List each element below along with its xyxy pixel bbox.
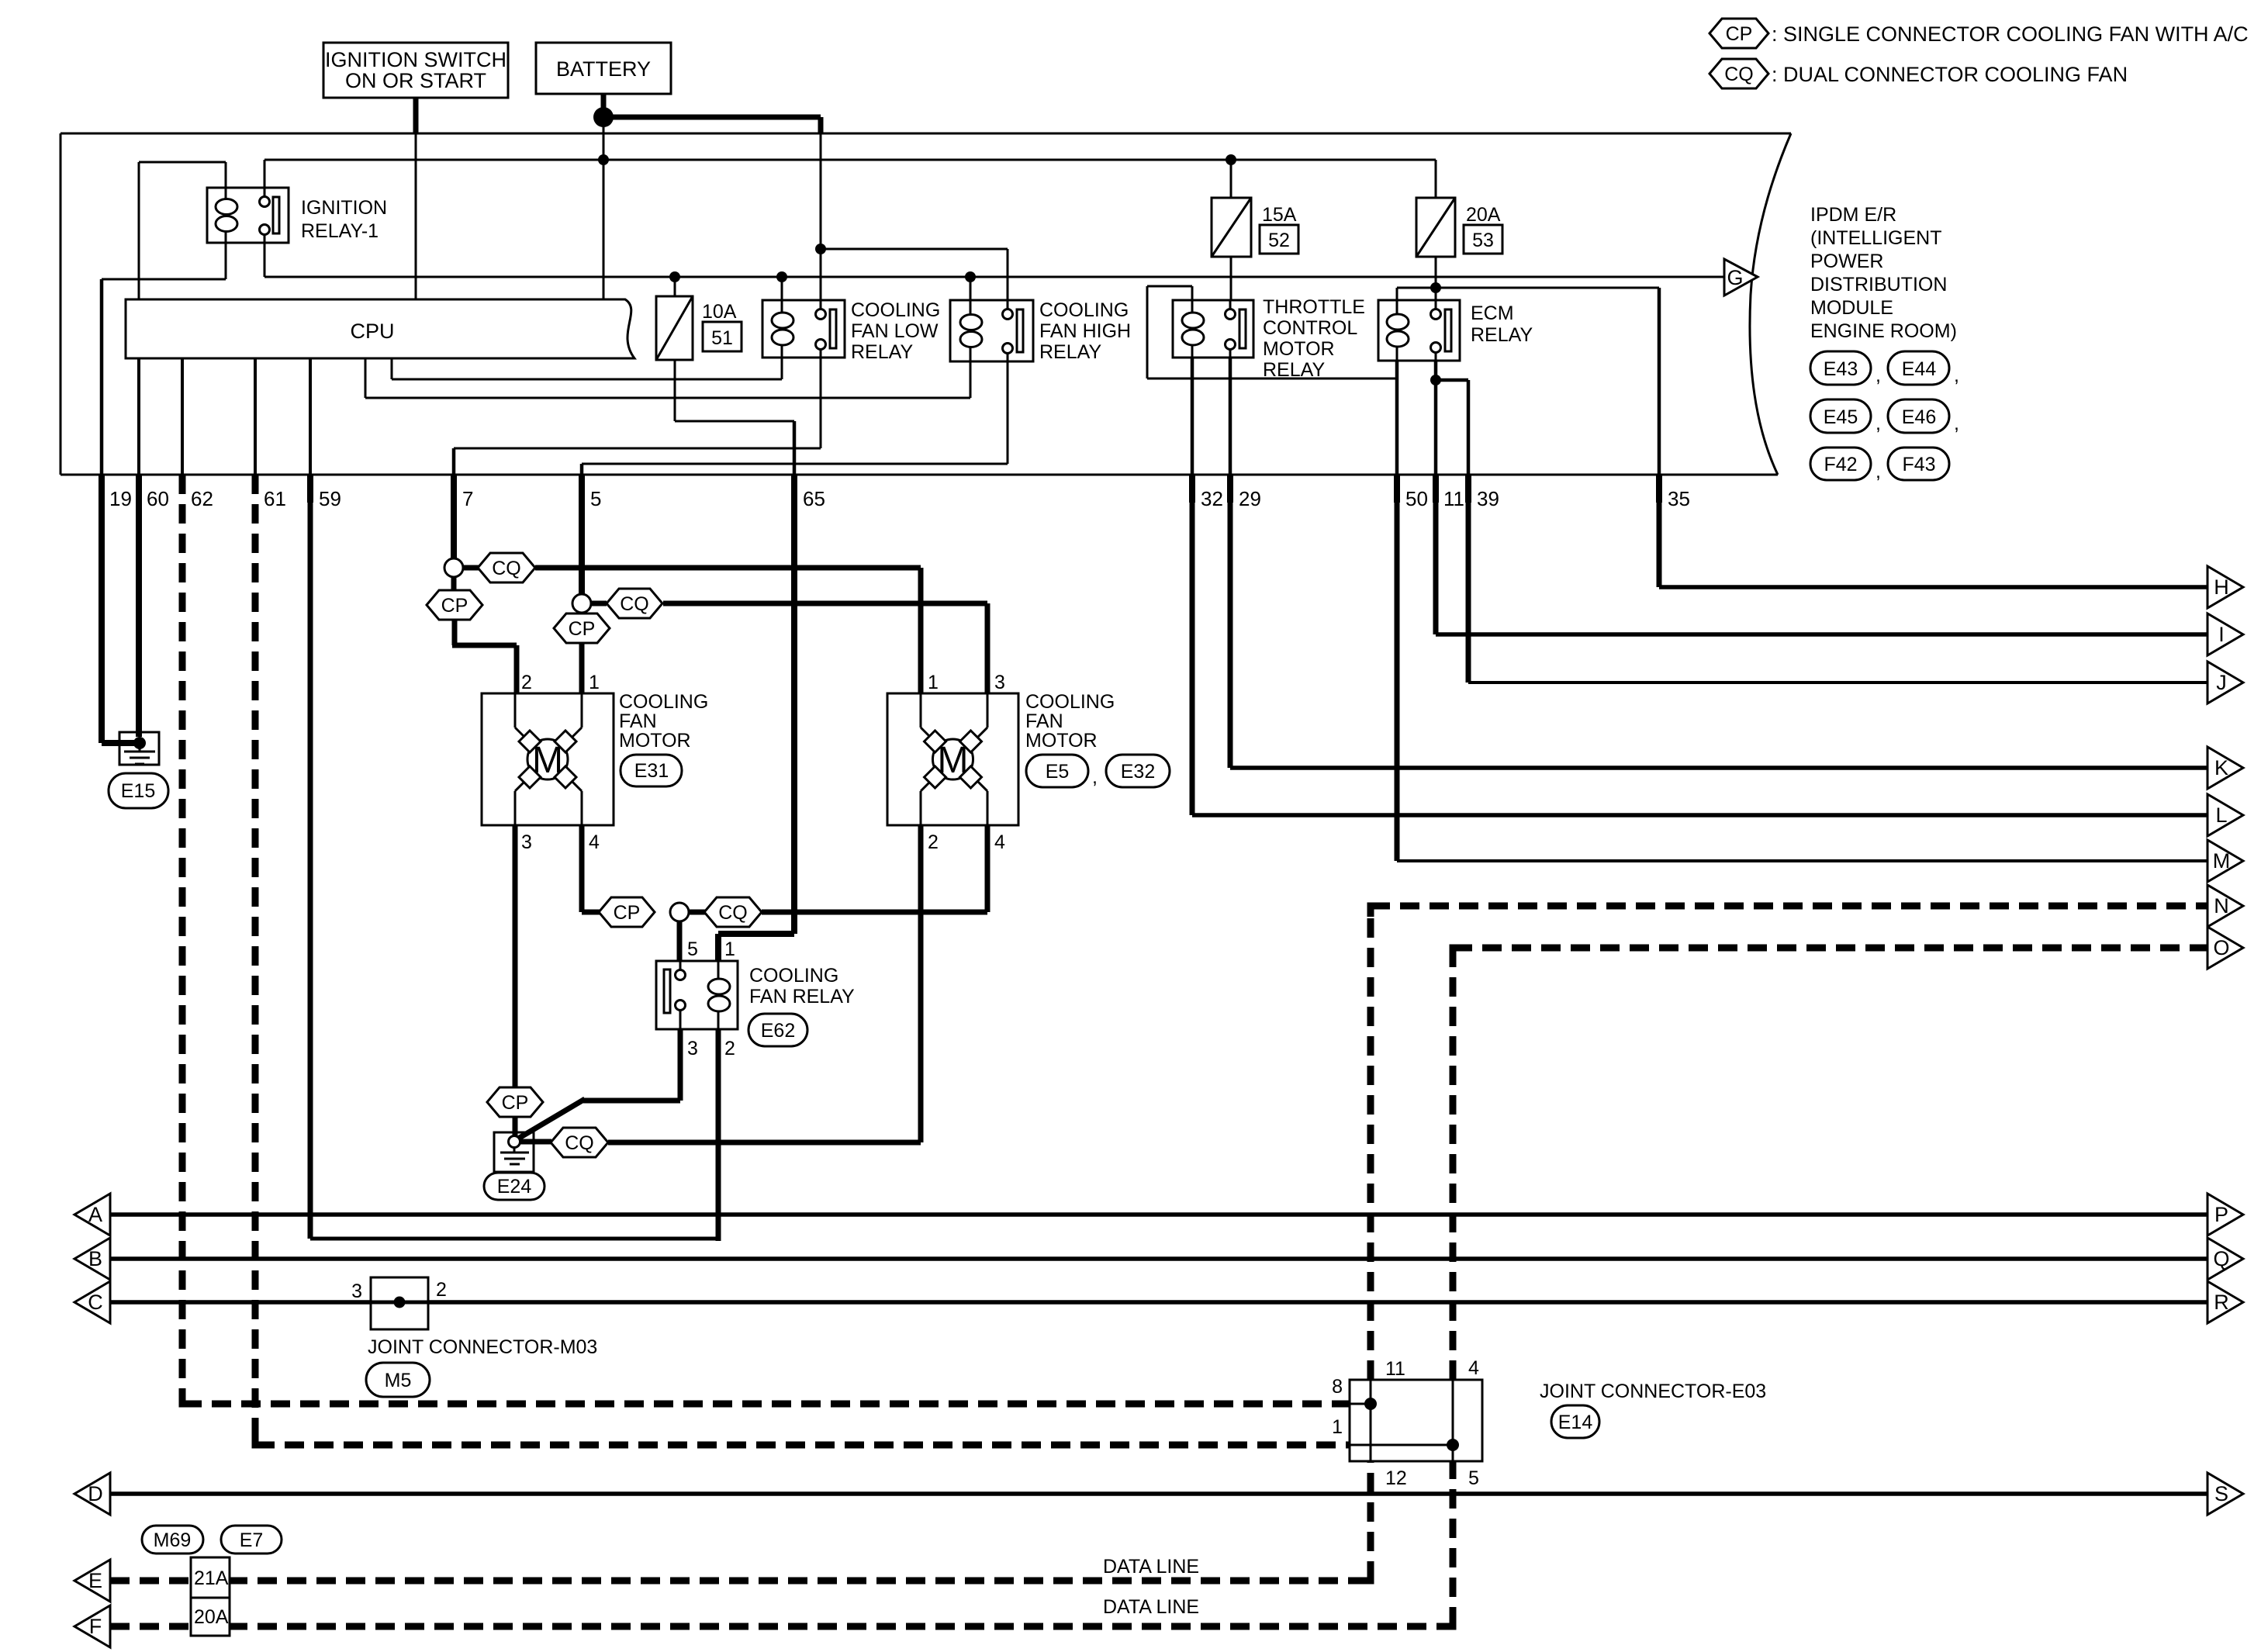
svg-text:DATA LINE: DATA LINE — [1103, 1556, 1199, 1578]
fuse 51 labels — [702, 301, 742, 351]
CP tag 3 — [599, 897, 655, 927]
IPDM connector F43 — [1888, 448, 1949, 480]
IPDM pin 32 — [1192, 475, 1223, 510]
cooling fan high relay label — [1039, 299, 1131, 363]
svg-text:E43: E43 — [1824, 358, 1858, 380]
svg-text:CP: CP — [614, 902, 641, 924]
arrow H — [2207, 566, 2243, 608]
svg-text:IGNITION SWITCH: IGNITION SWITCH — [325, 48, 506, 71]
junction bus fuse51 — [669, 271, 680, 282]
ignition relay-1 label — [301, 197, 387, 242]
connector E24 — [484, 1173, 545, 1200]
svg-text:65: 65 — [803, 487, 825, 510]
svg-text:RELAY-1: RELAY-1 — [301, 220, 379, 242]
svg-text:ON OR START: ON OR START — [345, 69, 486, 92]
wire ECM relay coil to pin 50 — [1395, 361, 1399, 475]
svg-text:D: D — [88, 1482, 103, 1505]
E62 relay pin labels — [687, 938, 735, 1059]
wire ECM relay switch to pins 11 and 39 — [1436, 361, 1468, 475]
wire E data line dashed — [110, 1578, 1371, 1585]
fuse 20A 53 — [1416, 198, 1455, 257]
svg-text:E31: E31 — [634, 760, 669, 782]
wire CPU pin 59 — [309, 358, 312, 475]
wire bus206 corner to fuse 53 — [1435, 160, 1437, 198]
svg-text:CP: CP — [441, 595, 468, 617]
arrow M — [2207, 840, 2243, 882]
connector E7 — [221, 1526, 282, 1554]
fuse 10A 51 — [656, 296, 693, 360]
svg-text:MOTOR: MOTOR — [619, 730, 691, 752]
data line label 1 — [1103, 1556, 1199, 1578]
motor E5 name label — [1025, 691, 1115, 752]
svg-text:C: C — [88, 1291, 103, 1314]
svg-text:K: K — [2214, 756, 2228, 779]
wire ignition relay coil to ground bus — [102, 243, 226, 475]
arrow G — [1724, 259, 1758, 295]
svg-text:60: 60 — [147, 487, 169, 510]
CP tag 4 — [487, 1087, 543, 1117]
wire bus to high relay coil — [970, 277, 972, 300]
svg-text:MOTOR: MOTOR — [1025, 730, 1098, 752]
svg-text:CPU: CPU — [350, 320, 394, 343]
svg-text:MODULE: MODULE — [1810, 297, 1893, 319]
IPDM pin 29 — [1230, 475, 1261, 510]
svg-text:4: 4 — [589, 831, 600, 853]
svg-text:E44: E44 — [1902, 358, 1937, 380]
wire pin 59 to relay coil node — [310, 503, 718, 1239]
joint connector M03 — [371, 1277, 428, 1329]
CQ tag 1 — [463, 553, 535, 582]
legend CQ text — [1772, 63, 2128, 86]
svg-text:A: A — [88, 1203, 102, 1226]
ground E24 — [494, 1132, 534, 1172]
svg-text:,: , — [1876, 461, 1881, 482]
svg-text:1: 1 — [589, 672, 600, 693]
svg-text:IGNITION: IGNITION — [301, 197, 387, 219]
wire corner pin61 — [255, 1434, 268, 1445]
wire B to Q — [110, 1256, 2207, 1261]
svg-text:RELAY: RELAY — [851, 341, 913, 363]
wire pin 35 to arrow H — [1659, 496, 2207, 587]
svg-text:JOINT CONNECTOR-E03: JOINT CONNECTOR-E03 — [1540, 1381, 1766, 1402]
svg-text:CQ: CQ — [565, 1132, 594, 1154]
CPU box — [126, 299, 634, 358]
svg-text:2: 2 — [436, 1279, 447, 1301]
wire corner arrow O — [1453, 948, 1464, 959]
svg-text:62: 62 — [191, 487, 213, 510]
wire C to R — [110, 1300, 2207, 1305]
legend CP connector symbol — [1710, 19, 1768, 48]
wire CPU to low relay coil — [392, 358, 782, 379]
wire pin 29 to arrow K — [1230, 496, 2207, 768]
svg-text:COOLING: COOLING — [619, 691, 708, 713]
motor E5 pin labels — [928, 672, 1005, 853]
svg-text:20A: 20A — [194, 1606, 229, 1628]
motor E31 name label — [619, 691, 708, 752]
svg-text:5: 5 — [1468, 1467, 1479, 1489]
svg-text:3: 3 — [994, 672, 1005, 693]
wire pin 65 to E62 relay pin 1 — [718, 503, 794, 961]
connector M5 — [366, 1363, 430, 1397]
svg-text:S: S — [2214, 1482, 2228, 1505]
IPDM pin 7 — [454, 475, 473, 510]
connector E14 — [1551, 1405, 1599, 1438]
svg-text:CQ: CQ — [492, 558, 521, 579]
svg-text:FAN: FAN — [619, 710, 657, 732]
svg-text:11: 11 — [1443, 487, 1464, 510]
wire CPU to ignition relay coil — [139, 162, 226, 299]
svg-text:FAN RELAY: FAN RELAY — [749, 986, 855, 1007]
wire pin 19 to E15 ground — [102, 496, 138, 743]
wire corner data E — [1360, 1570, 1371, 1581]
svg-text:1: 1 — [724, 938, 735, 960]
CQ tag 4 — [520, 1128, 608, 1157]
arrow R — [2207, 1281, 2243, 1323]
svg-text:H: H — [2214, 575, 2229, 599]
throttle control motor relay — [1173, 300, 1253, 358]
wire pin 5 down — [579, 503, 585, 595]
svg-text:1: 1 — [1332, 1416, 1343, 1438]
arrow N — [2207, 885, 2243, 927]
svg-text:Q: Q — [2213, 1247, 2229, 1270]
connector E15 — [109, 773, 168, 808]
cooling fan low relay — [762, 300, 845, 358]
wire CPU pin 62 — [181, 358, 184, 475]
svg-text:12: 12 — [1385, 1467, 1407, 1489]
wire data line to arrow O — [1453, 945, 2207, 952]
junction ECM switch output — [1430, 375, 1441, 385]
wire data riser to O — [1450, 948, 1457, 1626]
connector E32 — [1106, 755, 1170, 787]
wire low relay switch to pin 7 — [454, 358, 821, 475]
svg-text:3: 3 — [351, 1280, 362, 1302]
data line label 2 — [1103, 1596, 1199, 1618]
svg-text:FAN: FAN — [1025, 710, 1063, 732]
ground E15 — [119, 732, 159, 765]
CQ tag 2 — [591, 589, 662, 618]
wire pin 60 to E15 ground — [136, 496, 142, 737]
svg-text:B: B — [88, 1247, 102, 1270]
junction bus206 fuse52 — [1226, 154, 1236, 165]
arrow S — [2207, 1473, 2243, 1515]
connector M69 — [142, 1526, 203, 1554]
fuse 15A 52 — [1212, 198, 1251, 257]
junction bus low coil — [776, 271, 787, 282]
svg-text:51: 51 — [711, 327, 733, 349]
ignition switch box — [323, 43, 508, 98]
junction connector joint 1 — [444, 558, 463, 577]
IPDM E/R name label — [1810, 204, 1957, 342]
junction connector joint 3 — [670, 903, 689, 921]
svg-text:,: , — [1092, 766, 1098, 788]
arrow Q — [2207, 1238, 2243, 1280]
arrow D — [74, 1473, 110, 1515]
svg-text:COOLING: COOLING — [1025, 691, 1115, 713]
svg-text:,: , — [1954, 413, 1959, 434]
svg-text:E: E — [88, 1569, 102, 1592]
svg-text:FAN LOW: FAN LOW — [851, 320, 939, 342]
svg-text:N: N — [2214, 894, 2229, 918]
svg-text:5: 5 — [687, 938, 698, 960]
svg-text:E7: E7 — [240, 1529, 264, 1551]
svg-text:G: G — [1727, 266, 1743, 289]
svg-text:DISTRIBUTION: DISTRIBUTION — [1810, 274, 1947, 295]
wire corner pin62 — [182, 1393, 195, 1404]
fuse 20A box — [191, 1598, 230, 1636]
svg-text:CQ: CQ — [718, 902, 748, 924]
svg-text:4: 4 — [1468, 1357, 1479, 1379]
svg-text:CP: CP — [502, 1092, 529, 1114]
wire throttle relay coil bracket — [1147, 286, 1397, 378]
wire bus to fuse 51 — [674, 277, 676, 296]
svg-text:M69: M69 — [154, 1529, 192, 1551]
IPDM pin 60 — [139, 475, 169, 510]
svg-text:I: I — [2218, 623, 2225, 646]
svg-text:COOLING: COOLING — [851, 299, 940, 321]
svg-text:COOLING: COOLING — [1039, 299, 1129, 321]
wire pin 62 dashed to E14 pin 8 — [182, 475, 1350, 1404]
IPDM E/R enclosure box — [61, 133, 1791, 475]
wire corner arrow N — [1371, 906, 1381, 917]
svg-text:5: 5 — [590, 487, 601, 510]
legend CP text — [1772, 22, 2249, 46]
svg-text:L: L — [2215, 804, 2227, 827]
wire 20A node to ECM relay — [1397, 288, 1659, 475]
IPDM pin 19 — [102, 475, 132, 510]
svg-text:BATTERY: BATTERY — [556, 57, 651, 81]
svg-text:: SINGLE CONNECTOR COOLING FAN: : SINGLE CONNECTOR COOLING FAN WITH A/C — [1772, 22, 2249, 46]
IPDM pin 65 — [794, 475, 825, 510]
svg-text:FAN HIGH: FAN HIGH — [1039, 320, 1131, 342]
arrow O — [2207, 927, 2243, 969]
wire pin 39 to arrow J — [1468, 496, 2207, 683]
svg-text:E32: E32 — [1121, 761, 1155, 783]
wire pin 32 to arrow L — [1192, 496, 2207, 815]
svg-text:F: F — [89, 1615, 102, 1638]
svg-text:4: 4 — [994, 831, 1005, 853]
wire battery bus y206 — [264, 160, 1436, 188]
wire pin 11 to arrow I — [1436, 496, 2207, 634]
joint connector E03 label — [1540, 1381, 1766, 1402]
wire fuse 52 to throttle relay switch — [1230, 257, 1232, 300]
wire motor E31 pin 4 to CP3 — [582, 825, 601, 912]
svg-text:52: 52 — [1268, 230, 1290, 251]
fuse 21A box — [191, 1557, 230, 1598]
IPDM pin 39 — [1468, 475, 1499, 510]
wire CP1 to motor E31 pin 2 — [452, 620, 517, 693]
M03 pin labels — [351, 1279, 447, 1302]
svg-text:2: 2 — [521, 672, 532, 693]
wire data riser to N — [1367, 906, 1374, 1581]
arrow J — [2207, 662, 2243, 703]
wire fuse 51 to pin 65 — [675, 360, 794, 475]
wire D to S — [110, 1491, 2207, 1496]
E03 pin labels — [1332, 1357, 1479, 1489]
svg-text:E62: E62 — [761, 1020, 795, 1042]
svg-text:CONTROL: CONTROL — [1263, 317, 1357, 339]
svg-text:21A: 21A — [194, 1567, 229, 1589]
svg-text:29: 29 — [1239, 487, 1261, 510]
svg-text:8: 8 — [1332, 1376, 1343, 1398]
IPDM connector E43 — [1810, 351, 1881, 386]
joint connector E03 — [1350, 1380, 1482, 1461]
wire throttle relay coil to pin 32 — [1191, 358, 1194, 475]
svg-text:ECM: ECM — [1471, 302, 1514, 324]
wire CQ2 to motor E5 pin 3 — [663, 603, 987, 693]
wire CP4 to E24 — [513, 1117, 518, 1136]
svg-text:ENGINE ROOM): ENGINE ROOM) — [1810, 320, 1957, 342]
svg-text:IPDM E/R: IPDM E/R — [1810, 204, 1896, 226]
wire main bus from ignition relay switch — [264, 243, 1724, 277]
junction connector joint 2 — [572, 594, 591, 613]
fuse 53 labels — [1464, 204, 1502, 254]
svg-text:E45: E45 — [1824, 406, 1858, 428]
E62 relay name label — [749, 965, 855, 1007]
wire F data line dashed — [110, 1623, 1453, 1630]
svg-text:E15: E15 — [121, 780, 155, 802]
svg-text:10A: 10A — [702, 301, 737, 323]
svg-text:3: 3 — [687, 1038, 698, 1059]
svg-text:E14: E14 — [1558, 1412, 1593, 1433]
wire low/high relay switch feed — [821, 133, 1008, 300]
throttle relay label — [1263, 296, 1365, 381]
wire motor E31 pin 3 to CP4 — [513, 825, 518, 1088]
battery box — [536, 43, 671, 94]
svg-text:R: R — [2214, 1291, 2229, 1314]
wire E62 pin 2 to pin59 node — [716, 1029, 721, 1241]
IPDM pin 59 — [310, 475, 341, 510]
wire bus to low relay coil — [781, 277, 783, 300]
IPDM connector E44 — [1888, 351, 1959, 386]
svg-text:20A: 20A — [1466, 204, 1501, 226]
motor E31 pin labels — [521, 672, 600, 853]
svg-text:2: 2 — [928, 831, 939, 853]
cooling fan high relay — [950, 300, 1033, 361]
svg-text:,: , — [1876, 365, 1881, 386]
svg-text:P: P — [2214, 1203, 2228, 1226]
svg-text:POWER: POWER — [1810, 251, 1883, 272]
ECM relay label — [1471, 302, 1533, 346]
cooling fan low relay label — [851, 299, 940, 363]
connector E62 — [748, 1014, 807, 1046]
wire corner data F — [1442, 1616, 1453, 1626]
cooling fan motor E5/E32 — [887, 693, 1018, 825]
wire pin 61 dashed to E14 pin 1 — [255, 475, 1350, 1445]
IPDM connector F42 — [1810, 448, 1881, 482]
wire joint3 to E62 relay pin 5 — [677, 921, 683, 961]
joint connector M03 label — [368, 1336, 597, 1358]
svg-text:O: O — [2213, 936, 2229, 959]
svg-text:CQ: CQ — [620, 593, 649, 615]
wire E62 pin 3 to E24 ground — [518, 1029, 680, 1139]
svg-text:15A: 15A — [1262, 204, 1297, 226]
CP tag 2 — [554, 613, 610, 643]
arrow B — [74, 1238, 110, 1280]
wire CQ4 to motor E5 pin 2 — [608, 825, 921, 1142]
svg-text:MOTOR: MOTOR — [1263, 338, 1335, 360]
svg-text:COOLING: COOLING — [749, 965, 838, 987]
svg-text:,: , — [1876, 413, 1881, 434]
IPDM pin 35 — [1659, 475, 1690, 510]
svg-text:M5: M5 — [385, 1370, 412, 1391]
wire fuse 53 to ECM relay node — [1435, 257, 1437, 288]
wire CPU pin 60 — [137, 358, 140, 475]
CP tag 1 — [427, 577, 482, 620]
arrow A — [74, 1194, 110, 1236]
arrow K — [2207, 747, 2243, 789]
svg-text:2: 2 — [724, 1038, 735, 1059]
wire pin 7 down — [451, 503, 457, 560]
arrow F — [74, 1605, 110, 1647]
svg-text:F42: F42 — [1824, 454, 1857, 475]
svg-text:50: 50 — [1405, 487, 1428, 510]
svg-text:THROTTLE: THROTTLE — [1263, 296, 1365, 318]
wire battery feed thick — [603, 94, 821, 133]
svg-text:11: 11 — [1385, 1358, 1405, 1380]
connector E5 — [1026, 755, 1098, 788]
junction bus high coil — [965, 271, 976, 282]
arrow P — [2207, 1194, 2243, 1236]
svg-text:32: 32 — [1201, 487, 1223, 510]
legend CQ connector symbol — [1710, 59, 1768, 88]
arrow E — [74, 1560, 110, 1602]
junction battery node — [593, 107, 614, 127]
svg-text:CP: CP — [1726, 23, 1753, 45]
IPDM pin 50 — [1397, 475, 1428, 510]
svg-text:61: 61 — [264, 487, 286, 510]
wire CQ3 to motor E5 pin 4 — [762, 825, 987, 912]
IPDM connector E45 — [1810, 399, 1881, 434]
svg-text:53: 53 — [1472, 230, 1494, 251]
wire CQ1 to motor E5 pin 1 — [535, 568, 921, 693]
junction ECM feed node — [1430, 282, 1441, 293]
wire bus206 to fuse 52 — [1230, 160, 1232, 198]
cooling fan relay E62 — [656, 961, 738, 1029]
junction switch feed split — [815, 244, 826, 254]
wire high relay switch to pin 5 — [582, 361, 1008, 475]
CQ tag 3 — [689, 897, 762, 927]
arrow C — [74, 1281, 110, 1323]
svg-text:35: 35 — [1668, 487, 1690, 510]
ECM relay — [1378, 300, 1460, 361]
svg-text:59: 59 — [319, 487, 341, 510]
svg-text:M: M — [2213, 849, 2231, 873]
IPDM pin 11 — [1436, 475, 1464, 510]
junction battery bus at x778 — [598, 154, 609, 165]
svg-text:DATA LINE: DATA LINE — [1103, 1596, 1199, 1618]
IPDM pin 62 — [191, 487, 213, 510]
arrow I — [2207, 613, 2243, 655]
svg-text:JOINT CONNECTOR-M03: JOINT CONNECTOR-M03 — [368, 1336, 597, 1358]
svg-text:E24: E24 — [497, 1176, 532, 1198]
IPDM connector E46 — [1888, 399, 1959, 434]
svg-text:19: 19 — [109, 487, 132, 510]
svg-text:(INTELLIGENT: (INTELLIGENT — [1810, 227, 1941, 249]
svg-text:CP: CP — [569, 618, 596, 640]
wire CPU to high relay coil — [365, 358, 970, 398]
wire CP2 to motor E31 pin 1 — [579, 643, 585, 693]
wire CPU pin 61 — [254, 358, 257, 475]
svg-text:: DUAL CONNECTOR COOLING FAN: : DUAL CONNECTOR COOLING FAN — [1772, 63, 2128, 86]
wire pin 50 to arrow M — [1397, 496, 2207, 861]
svg-text:F43: F43 — [1902, 454, 1935, 475]
ignition relay-1 — [207, 188, 289, 243]
wire throttle relay switch to pin 29 — [1229, 358, 1232, 475]
wire A to P — [110, 1212, 2207, 1217]
svg-text:,: , — [1954, 365, 1959, 386]
svg-text:E5: E5 — [1046, 761, 1070, 783]
svg-text:CQ: CQ — [1724, 64, 1754, 85]
